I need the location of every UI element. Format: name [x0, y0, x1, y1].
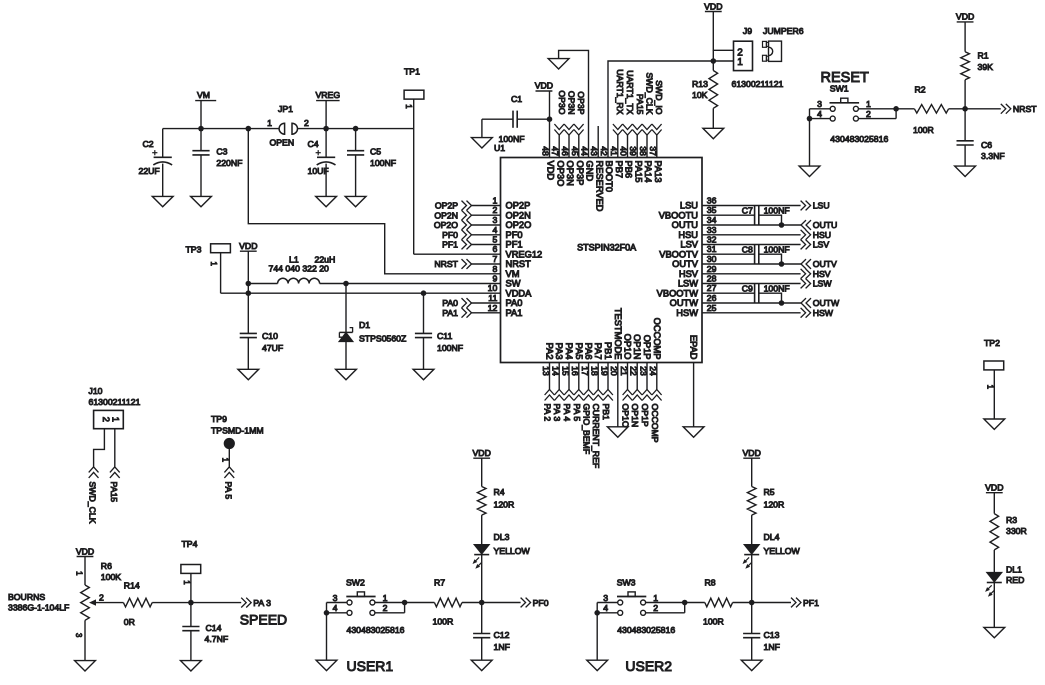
svg-text:SPEED: SPEED	[240, 612, 287, 628]
svg-text:R5: R5	[764, 487, 775, 497]
svg-text:744 040 322 20: 744 040 322 20	[269, 264, 330, 274]
svg-text:YELLOW: YELLOW	[494, 546, 531, 556]
svg-text:R3: R3	[1006, 515, 1017, 525]
svg-text:2: 2	[99, 593, 104, 603]
svg-text:VDD: VDD	[985, 483, 1003, 493]
svg-text:1: 1	[182, 580, 191, 584]
svg-text:OP2P: OP2P	[506, 201, 531, 211]
svg-text:PA4: PA4	[564, 343, 574, 360]
svg-text:GPIO_BEMF: GPIO_BEMF	[582, 404, 592, 455]
svg-text:STPS0560Z: STPS0560Z	[359, 333, 407, 343]
svg-text:R13: R13	[692, 79, 708, 89]
svg-text:30: 30	[707, 254, 717, 264]
svg-text:NRST: NRST	[1013, 104, 1037, 114]
svg-text:U1: U1	[494, 143, 505, 153]
svg-text:VBOOTU: VBOOTU	[659, 210, 698, 220]
svg-text:120R: 120R	[764, 500, 785, 510]
svg-text:100R: 100R	[433, 617, 454, 627]
svg-text:PF1: PF1	[803, 598, 819, 608]
svg-text:1NF: 1NF	[764, 642, 780, 652]
svg-text:PA15: PA15	[634, 161, 644, 183]
svg-text:PA6: PA6	[584, 343, 594, 360]
svg-text:27: 27	[707, 283, 717, 293]
svg-text:PA7: PA7	[593, 343, 603, 360]
svg-text:R1: R1	[978, 51, 989, 61]
svg-text:HSU: HSU	[813, 230, 831, 240]
svg-text:3.3NF: 3.3NF	[981, 151, 1005, 161]
svg-text:PB1: PB1	[603, 342, 613, 360]
svg-text:CURRENT_REF: CURRENT_REF	[591, 404, 601, 469]
svg-text:OP3N: OP3N	[565, 161, 575, 186]
svg-text:PA1: PA1	[442, 308, 458, 318]
svg-text:J9: J9	[743, 26, 752, 36]
svg-text:4: 4	[333, 603, 338, 613]
svg-text:PA14: PA14	[643, 161, 653, 183]
svg-text:SWD_CLK: SWD_CLK	[88, 482, 98, 524]
svg-text:9: 9	[492, 274, 497, 284]
svg-text:2: 2	[492, 205, 497, 215]
svg-text:61300211121: 61300211121	[89, 397, 141, 407]
svg-text:C5: C5	[370, 147, 381, 157]
svg-text:330R: 330R	[1006, 526, 1027, 536]
svg-text:STSPIN32F0A: STSPIN32F0A	[577, 243, 636, 253]
svg-text:TESTMODE: TESTMODE	[613, 308, 623, 360]
svg-text:SW: SW	[506, 279, 521, 289]
svg-text:HSV: HSV	[813, 269, 831, 279]
svg-text:HSW: HSW	[813, 308, 834, 318]
svg-text:100K: 100K	[101, 572, 121, 582]
svg-text:TP2: TP2	[984, 338, 1000, 348]
svg-text:PA 5: PA 5	[223, 482, 233, 500]
svg-text:UART1_RX: UART1_RX	[615, 69, 625, 114]
svg-text:LSV: LSV	[813, 240, 830, 250]
svg-text:3: 3	[817, 99, 822, 109]
svg-text:OP1O: OP1O	[623, 334, 633, 360]
svg-text:VREG: VREG	[315, 90, 340, 100]
svg-text:C8: C8	[742, 244, 753, 254]
svg-text:PA3: PA3	[554, 343, 564, 360]
svg-text:USER1: USER1	[347, 658, 394, 674]
svg-text:PF0: PF0	[506, 230, 523, 240]
svg-text:GND: GND	[585, 161, 595, 182]
svg-text:NRST: NRST	[506, 259, 532, 269]
svg-text:430483025816: 430483025816	[347, 625, 405, 635]
svg-text:VDD: VDD	[239, 241, 257, 251]
svg-text:2: 2	[383, 603, 388, 613]
svg-text:PA5: PA5	[574, 343, 584, 360]
svg-text:SW3: SW3	[617, 578, 636, 588]
svg-text:C14: C14	[206, 623, 222, 633]
svg-text:PB1: PB1	[601, 404, 611, 421]
svg-text:VDD: VDD	[473, 448, 491, 458]
svg-text:PA2: PA2	[545, 343, 555, 360]
svg-text:1: 1	[111, 417, 121, 422]
svg-text:1: 1	[653, 593, 658, 603]
svg-text:4: 4	[603, 603, 608, 613]
svg-text:OP2O: OP2O	[434, 220, 458, 230]
svg-text:LSU: LSU	[813, 201, 830, 211]
svg-text:VDDA: VDDA	[506, 288, 533, 298]
svg-text:PF1: PF1	[442, 240, 458, 250]
svg-text:OP1O: OP1O	[621, 404, 631, 428]
svg-text:OUTU: OUTU	[813, 220, 838, 230]
svg-text:PA1: PA1	[506, 308, 523, 318]
svg-text:28: 28	[707, 274, 717, 284]
svg-text:DL1: DL1	[1006, 564, 1022, 574]
svg-text:SW2: SW2	[346, 578, 365, 588]
svg-text:R7: R7	[434, 577, 445, 587]
svg-text:JUMPER6: JUMPER6	[763, 26, 804, 36]
svg-text:PA15: PA15	[109, 482, 119, 503]
svg-text:4: 4	[492, 225, 497, 235]
svg-text:100R: 100R	[913, 125, 934, 135]
svg-text:3: 3	[74, 633, 83, 637]
svg-text:3: 3	[492, 215, 497, 225]
svg-text:VM: VM	[506, 269, 520, 279]
svg-text:BOURNS: BOURNS	[8, 592, 45, 602]
svg-text:LSW: LSW	[678, 279, 698, 289]
svg-text:0R: 0R	[124, 617, 135, 627]
svg-text:C1: C1	[511, 94, 522, 104]
svg-text:C6: C6	[981, 140, 992, 150]
svg-text:OP2O: OP2O	[506, 220, 532, 230]
svg-text:C4: C4	[308, 139, 319, 149]
svg-text:1: 1	[383, 593, 388, 603]
svg-text:VREG12: VREG12	[506, 249, 543, 259]
svg-text:OP1P: OP1P	[642, 335, 652, 360]
svg-text:430483025816: 430483025816	[617, 625, 675, 635]
svg-text:VDD: VDD	[546, 161, 556, 181]
svg-text:5: 5	[492, 235, 497, 245]
svg-text:HSV: HSV	[679, 269, 699, 279]
svg-text:26: 26	[707, 293, 717, 303]
svg-text:PA 3: PA 3	[552, 404, 562, 422]
svg-text:HSW: HSW	[676, 308, 698, 318]
svg-text:3: 3	[333, 593, 338, 603]
svg-text:LSU: LSU	[680, 201, 698, 211]
svg-text:4: 4	[817, 109, 822, 119]
svg-text:PA 2: PA 2	[543, 404, 553, 422]
svg-text:1: 1	[75, 571, 84, 575]
svg-text:2: 2	[653, 603, 658, 613]
svg-text:1NF: 1NF	[494, 642, 510, 652]
svg-text:LSV: LSV	[680, 240, 698, 250]
svg-text:VDD: VDD	[76, 546, 94, 556]
svg-text:31: 31	[707, 244, 717, 254]
svg-text:OP1N: OP1N	[632, 334, 642, 359]
svg-text:VBOOTW: VBOOTW	[657, 288, 699, 298]
svg-text:PA13: PA13	[653, 161, 663, 183]
svg-text:47UF: 47UF	[262, 343, 283, 353]
svg-text:100NF: 100NF	[764, 283, 790, 293]
svg-text:OP1P: OP1P	[640, 404, 650, 427]
svg-text:UART1_TX: UART1_TX	[625, 70, 635, 114]
svg-text:OPEN: OPEN	[270, 137, 295, 147]
svg-text:TP9: TP9	[211, 414, 227, 424]
svg-text:PB6: PB6	[624, 161, 634, 179]
svg-text:PF0: PF0	[533, 598, 549, 608]
svg-text:25: 25	[707, 303, 717, 313]
svg-text:6: 6	[492, 244, 497, 254]
svg-text:100NF: 100NF	[764, 244, 790, 254]
svg-text:R6: R6	[101, 561, 112, 571]
svg-text:2: 2	[304, 118, 309, 128]
svg-text:C11: C11	[437, 331, 452, 341]
svg-text:11: 11	[488, 293, 497, 303]
svg-text:C7: C7	[742, 205, 753, 215]
svg-text:DL4: DL4	[764, 532, 780, 542]
svg-text:SWD_IO: SWD_IO	[654, 80, 664, 115]
svg-text:PF1: PF1	[506, 240, 523, 250]
svg-text:C13: C13	[764, 630, 780, 640]
svg-text:12: 12	[488, 303, 498, 313]
svg-text:J10: J10	[89, 386, 103, 396]
svg-text:RESERVED: RESERVED	[595, 161, 605, 212]
svg-text:BOOT0: BOOT0	[604, 161, 614, 193]
svg-text:1: 1	[492, 196, 497, 206]
svg-text:32: 32	[707, 235, 717, 245]
svg-text:R8: R8	[705, 577, 716, 587]
svg-text:TP1: TP1	[404, 67, 420, 77]
svg-text:34: 34	[707, 215, 717, 225]
svg-text:7: 7	[492, 254, 497, 264]
svg-text:33: 33	[707, 225, 717, 235]
svg-text:OCCOMP: OCCOMP	[652, 318, 662, 360]
svg-text:220NF: 220NF	[216, 158, 242, 168]
svg-text:1: 1	[985, 385, 994, 389]
svg-text:PA 4: PA 4	[562, 404, 572, 422]
svg-text:120R: 120R	[494, 500, 515, 510]
svg-text:61300211121: 61300211121	[732, 79, 784, 89]
svg-text:1: 1	[267, 118, 272, 128]
svg-text:PA0: PA0	[506, 298, 523, 308]
svg-text:10UF: 10UF	[308, 166, 329, 176]
svg-text:OP1N: OP1N	[630, 404, 640, 428]
svg-text:OUTW: OUTW	[670, 298, 699, 308]
svg-text:PA 5: PA 5	[572, 404, 582, 422]
svg-text:430483025816: 430483025816	[830, 134, 888, 144]
svg-text:OUTV: OUTV	[672, 259, 699, 269]
svg-text:VDD: VDD	[743, 448, 761, 458]
svg-text:100NF: 100NF	[764, 205, 790, 215]
svg-text:36: 36	[707, 196, 717, 206]
svg-text:35: 35	[707, 205, 717, 215]
svg-text:1: 1	[866, 99, 871, 109]
svg-text:C10: C10	[262, 331, 278, 341]
svg-text:3386G-1-104LF: 3386G-1-104LF	[8, 602, 69, 612]
svg-text:C3: C3	[216, 147, 227, 157]
svg-text:2: 2	[866, 109, 871, 119]
svg-text:PA15: PA15	[635, 94, 645, 115]
svg-text:OP3O: OP3O	[557, 90, 567, 114]
svg-text:VDD: VDD	[956, 12, 974, 22]
svg-text:OUTU: OUTU	[672, 220, 698, 230]
svg-text:OP2N: OP2N	[506, 210, 531, 220]
svg-text:VBOOTV: VBOOTV	[659, 249, 699, 259]
svg-text:PF0: PF0	[442, 230, 458, 240]
svg-text:PA 3: PA 3	[253, 598, 271, 608]
svg-text:NRST: NRST	[434, 259, 458, 269]
svg-text:R14: R14	[124, 581, 140, 591]
svg-text:OUTV: OUTV	[813, 259, 837, 269]
svg-text:3: 3	[603, 593, 608, 603]
svg-text:C2: C2	[143, 139, 154, 149]
svg-text:OCCOMP: OCCOMP	[650, 404, 660, 443]
svg-text:PA0: PA0	[442, 298, 458, 308]
svg-text:RED: RED	[1006, 575, 1024, 585]
svg-text:R2: R2	[915, 85, 926, 95]
svg-text:2: 2	[101, 417, 111, 422]
svg-text:29: 29	[707, 264, 717, 274]
svg-text:SW1: SW1	[830, 84, 849, 94]
svg-text:1: 1	[221, 458, 230, 462]
svg-text:OP2P: OP2P	[435, 201, 458, 211]
svg-text:OP3P: OP3P	[575, 161, 585, 186]
svg-text:1: 1	[209, 261, 218, 265]
svg-text:100NF: 100NF	[437, 343, 463, 353]
svg-text:100NF: 100NF	[370, 158, 396, 168]
svg-text:TP4: TP4	[182, 539, 198, 549]
svg-text:100NF: 100NF	[499, 134, 525, 144]
svg-text:OP3O: OP3O	[556, 161, 566, 187]
svg-text:OP3P: OP3P	[576, 91, 586, 114]
svg-text:TPSMD-1MM: TPSMD-1MM	[211, 425, 264, 435]
svg-text:VDD: VDD	[535, 81, 553, 91]
svg-text:USER2: USER2	[625, 658, 672, 674]
svg-text:HSU: HSU	[678, 230, 698, 240]
svg-text:10K: 10K	[692, 90, 708, 100]
svg-text:JP1: JP1	[278, 104, 293, 114]
svg-text:OP2N: OP2N	[434, 210, 458, 220]
svg-text:D1: D1	[359, 320, 370, 330]
svg-text:YELLOW: YELLOW	[764, 546, 801, 556]
svg-text:EPAD: EPAD	[689, 335, 699, 360]
svg-text:C9: C9	[742, 283, 753, 293]
svg-text:DL3: DL3	[494, 532, 510, 542]
svg-text:VDD: VDD	[704, 1, 722, 11]
svg-text:1: 1	[737, 57, 743, 68]
svg-text:100R: 100R	[703, 617, 724, 627]
svg-text:39K: 39K	[978, 62, 994, 72]
svg-text:R4: R4	[494, 487, 505, 497]
svg-text:TP3: TP3	[186, 244, 202, 254]
svg-text:SWD_CLK: SWD_CLK	[645, 73, 655, 115]
svg-text:VM: VM	[197, 90, 210, 100]
svg-text:OUTW: OUTW	[813, 298, 840, 308]
svg-text:10: 10	[488, 283, 498, 293]
svg-text:22UF: 22UF	[139, 166, 160, 176]
svg-text:OP3N: OP3N	[567, 91, 577, 115]
svg-text:8: 8	[492, 264, 497, 274]
svg-text:1: 1	[404, 104, 413, 108]
svg-text:4.7NF: 4.7NF	[205, 634, 229, 644]
svg-text:C12: C12	[494, 630, 510, 640]
svg-text:PB7: PB7	[614, 161, 624, 179]
svg-text:LSW: LSW	[813, 279, 833, 289]
